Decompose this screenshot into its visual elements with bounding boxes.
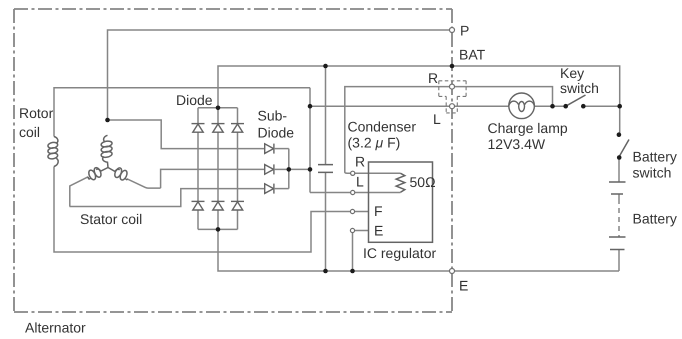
- wire L to IC regulator: [310, 192, 401, 194]
- svg-text:12V3.4W: 12V3.4W: [488, 136, 546, 152]
- wire phase3: [70, 189, 265, 207]
- diode D4 lower: [192, 201, 205, 210]
- svg-text:P: P: [460, 23, 469, 39]
- svg-text:F: F: [374, 203, 383, 219]
- node condenser top junction: [323, 64, 328, 69]
- node stator phase1 junction: [105, 118, 110, 123]
- stator coil left winding: [87, 167, 108, 181]
- node BAT drop junction: [617, 104, 622, 109]
- node battery switch top contact: [617, 132, 622, 137]
- diode D3 upper: [231, 124, 244, 133]
- charge lamp: [509, 93, 535, 119]
- wire diode column 1: [197, 108, 199, 230]
- svg-text:Battery: Battery: [633, 211, 677, 227]
- svg-text:Diode: Diode: [176, 92, 213, 108]
- IC regulator box U1: [369, 162, 433, 242]
- alternator case dash-dot border: [14, 9, 452, 312]
- svg-text:IC regulator: IC regulator: [363, 245, 436, 261]
- battery switch blade: [620, 140, 630, 157]
- wire sub-diode output to L node: [289, 168, 310, 170]
- stator coil right winding: [108, 167, 128, 181]
- wire F feed from rotor: [54, 167, 369, 253]
- connector dashed outline at R L terminals: [439, 81, 466, 113]
- key switch blade: [566, 95, 586, 106]
- wire L node to lamp and key switch left: [310, 105, 566, 107]
- wire bridge top rail: [198, 107, 238, 109]
- node L bus junction: [308, 167, 313, 172]
- svg-text:L: L: [356, 174, 364, 190]
- sub-diode SD3: [265, 184, 289, 194]
- IC terminal L: [351, 190, 355, 194]
- svg-text:Alternator: Alternator: [25, 320, 86, 336]
- node condenser bottom on E rail: [323, 269, 328, 274]
- svg-text:BAT: BAT: [459, 47, 486, 63]
- wire L node vertical: [309, 88, 311, 193]
- wire phase1: [108, 120, 265, 149]
- battery dashed cells: [618, 199, 620, 237]
- node IC regulator E on E rail: [350, 269, 355, 274]
- svg-text:coil: coil: [19, 124, 40, 140]
- wire diode column 3: [237, 108, 239, 230]
- svg-text:50Ω: 50Ω: [410, 174, 436, 190]
- svg-text:E: E: [374, 223, 383, 239]
- node bridge negative rail junction: [216, 227, 221, 232]
- wire battery column: [618, 158, 620, 272]
- node sub-diode output junction: [287, 167, 292, 172]
- wire bridge bottom rail: [198, 228, 238, 230]
- svg-text:Key: Key: [560, 65, 584, 81]
- wire R terminal line: [345, 87, 553, 173]
- node R wire to lamp output junction: [550, 104, 555, 109]
- svg-text:E: E: [459, 278, 468, 294]
- svg-text:Charge lamp: Charge lamp: [488, 120, 568, 136]
- wire R into IC regulator: [345, 172, 401, 174]
- terminal R: [450, 84, 455, 89]
- wire diode column 2: [217, 108, 219, 230]
- svg-text:R: R: [355, 154, 365, 170]
- wire key switch right to BAT drop: [583, 105, 619, 107]
- wire P line from stator phase1 node: [108, 30, 450, 120]
- svg-text:Diode: Diode: [258, 125, 295, 141]
- sub-diode SD2: [265, 164, 289, 174]
- svg-text:L: L: [433, 111, 441, 127]
- svg-text:R: R: [428, 70, 438, 86]
- battery B1 plates: [609, 182, 626, 250]
- wire stator right leg step: [127, 179, 161, 188]
- svg-text:Condenser: Condenser: [348, 119, 417, 135]
- IC terminal E: [350, 228, 354, 232]
- node battery switch bottom contact: [617, 155, 622, 160]
- svg-text:switch: switch: [560, 80, 599, 96]
- svg-text:Battery: Battery: [633, 149, 677, 165]
- node L wire junction: [308, 104, 313, 109]
- wire rotor top to L node: [54, 88, 310, 137]
- svg-text:Rotor: Rotor: [19, 105, 54, 121]
- svg-text:switch: switch: [633, 165, 672, 181]
- stator coil top winding: [101, 135, 113, 167]
- resistor 50 ohm: [396, 173, 405, 192]
- node BAT junction: [450, 64, 455, 69]
- wire condenser branch: [325, 66, 327, 271]
- wire phase2: [161, 169, 265, 188]
- diode D2 upper: [212, 124, 225, 133]
- diode D5 lower: [212, 201, 225, 210]
- wire BAT rail from bridge: [218, 66, 620, 135]
- condenser C1 plates: [318, 165, 333, 173]
- node key switch right contact: [581, 104, 586, 109]
- sub-diode SD1: [265, 144, 289, 154]
- svg-text:Stator coil: Stator coil: [80, 211, 142, 227]
- wire E ground rail: [218, 229, 619, 271]
- node bridge positive rail junction: [216, 106, 221, 111]
- svg-text:Sub-: Sub-: [258, 108, 288, 124]
- wire sub-diode cathode bus: [288, 149, 290, 189]
- IC terminal R: [351, 171, 355, 175]
- wire stator left leg: [70, 177, 88, 207]
- rotor coil L1: [47, 137, 58, 167]
- wire E from IC regulator: [353, 231, 369, 272]
- diode D1 upper: [192, 124, 205, 133]
- terminal P: [450, 28, 455, 33]
- terminal L: [450, 104, 455, 109]
- terminal E: [450, 269, 455, 274]
- svg-text:(3.2 μ F): (3.2 μ F): [348, 135, 401, 151]
- diode D6 lower: [231, 201, 244, 210]
- IC terminal F: [350, 209, 354, 213]
- node key switch left contact: [563, 104, 568, 109]
